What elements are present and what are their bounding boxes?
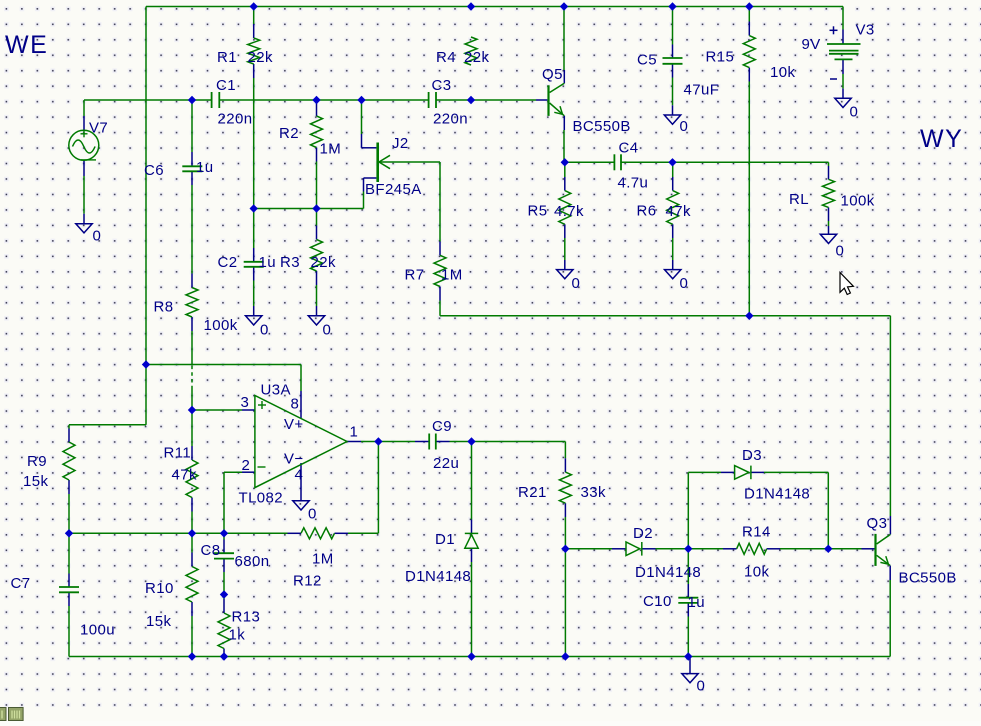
svg-text:D1N4148: D1N4148 [635,564,701,581]
svg-text:22k: 22k [464,49,489,66]
svg-text:4.7u: 4.7u [618,175,649,192]
wire opamp output net [347,441,429,443]
wire R3 column [316,209,318,316]
wire opamp supply feed [146,365,301,419]
svg-text:47k: 47k [666,203,691,220]
svg-text:R2: R2 [279,125,299,142]
svg-text:D1N4148: D1N4148 [744,486,810,503]
svg-text:47k: 47k [172,467,197,484]
svg-text:C2: C2 [218,254,238,271]
svg-text:V−: V− [284,451,304,468]
taskbar icon partial [0,708,6,721]
svg-text:220n: 220n [218,111,253,128]
resistor R10 [186,567,198,603]
wire input net segment V7 to C1 [84,99,212,101]
wire opamp pin 2 net [224,472,255,533]
svg-text:0: 0 [260,322,269,339]
capacitor C9 [428,434,430,450]
svg-text:D1: D1 [435,531,455,548]
ground symbol opamp [293,501,309,510]
wire D1 column [471,442,473,657]
wire C5 column [672,7,674,116]
junction node R4 [467,96,475,104]
wire to Q3 base [828,548,875,550]
svg-text:WY: WY [920,125,963,153]
wire C4 net [565,162,829,179]
resistor R5 [559,191,571,225]
junction opamp output [374,437,382,445]
transistor Q3 [874,534,890,566]
junction R9 C7 node [65,529,73,537]
svg-text:0: 0 [850,104,859,121]
svg-text:9V: 9V [802,36,821,53]
wire R21 node to ground rail [564,549,566,657]
junction D1 node [467,437,475,445]
svg-text:3: 3 [241,394,250,411]
voltage source V7 [69,130,99,160]
diode D3 [735,466,751,480]
wire to R9 branch [69,365,146,443]
wire J2 drain connection [362,100,377,148]
wire bottom ground rail [69,656,890,658]
taskbar icon [9,708,24,721]
svg-text:15k: 15k [146,613,171,630]
svg-text:R8: R8 [154,299,174,316]
junction ground rail R10 [188,652,196,660]
wire C6 R8 column [191,100,193,410]
ground symbol R3 [308,316,324,325]
svg-text:100k: 100k [204,317,238,334]
svg-text:1u: 1u [688,594,706,611]
svg-text:D1N4148: D1N4148 [405,568,471,585]
wire R14 left [688,548,736,550]
wire left vertical from top rail [145,7,147,365]
svg-text:R9: R9 [27,453,47,470]
wire C7 column [68,533,70,656]
wire feedback bottom net [69,532,224,534]
wire D3 branch [688,472,734,548]
wire R1 column [253,7,255,209]
wire R10 column [191,533,193,656]
svg-text:V+: V+ [284,416,304,433]
svg-text:0: 0 [308,506,317,523]
ground symbol R5 [557,270,573,279]
svg-text:C6: C6 [144,162,164,179]
junction R10 node [188,529,196,537]
svg-text:220n: 220n [433,111,468,128]
ground symbol V3 [835,98,851,107]
capacitor C7 [59,586,79,588]
junction ground rail C10 [684,652,692,660]
svg-text:R12: R12 [293,573,322,590]
svg-text:D3: D3 [742,447,762,464]
svg-text:1k: 1k [229,627,246,644]
ground symbol RL [820,234,836,243]
wire C8 stub [223,533,225,594]
svg-text:U3A: U3A [261,382,291,399]
resistor R9 [63,442,75,480]
resistor R21 [559,472,571,503]
wire J2 source rail [254,208,364,210]
svg-text:R13: R13 [232,609,261,626]
resistor R6 [667,191,679,225]
svg-text:R11: R11 [164,445,192,462]
wire ground stub bottom [689,657,691,674]
svg-text:680n: 680n [235,553,270,570]
ground symbol bottom rail [682,674,698,683]
wire D2 to C10 node [642,548,689,550]
diode D1 [465,533,478,548]
junction C4 R6 node [668,158,676,166]
svg-text:0: 0 [323,322,332,339]
svg-text:10k: 10k [770,64,795,81]
wire R21 bottom [564,503,566,549]
junction ground rail R13 [220,652,228,660]
wire Q5 collector column [563,7,565,84]
svg-text:1u: 1u [196,159,214,176]
wire R14 right [767,548,829,550]
ground symbol R6 [665,270,681,279]
wire top supply rail [146,6,843,8]
diode D2 [626,542,642,556]
wire V7 top stub [83,100,85,130]
capacitor C8 [214,552,234,554]
wire R2 column [316,100,318,209]
transistor J2 [376,143,390,183]
svg-text:C5: C5 [637,52,657,69]
svg-text:C1: C1 [216,77,236,94]
capacitor C4 [613,154,615,170]
op-amp U3A [255,396,347,488]
svg-text:BC550B: BC550B [573,118,631,135]
svg-text:R15: R15 [706,49,735,66]
svg-text:TL082: TL082 [239,490,284,507]
resistor R12 [301,528,335,539]
resistor R4 [465,37,477,65]
wire dashed segment below node crossing [191,366,193,389]
junction D2 C10 node [684,545,692,553]
svg-text:8: 8 [291,396,300,413]
wire J2 source connection [364,178,377,209]
svg-text:Q3: Q3 [867,515,888,532]
svg-text:33k: 33k [581,484,606,501]
junction source rail left [250,204,258,212]
svg-text:Q5: Q5 [542,66,563,83]
svg-text:D2: D2 [633,525,653,542]
svg-text:R6: R6 [637,203,657,220]
svg-text:V3: V3 [856,22,875,39]
ground symbol C2 [246,316,262,325]
junction top rail R4 [467,2,475,10]
capacitor C10 [678,597,698,599]
svg-text:R3: R3 [280,254,300,271]
resistor R7 [434,255,446,286]
svg-text:1M: 1M [320,141,342,158]
wire R11 column [191,410,193,533]
capacitor C1 [211,92,213,108]
junction D3 R14 node [824,545,832,553]
svg-text:C10: C10 [643,593,672,610]
svg-text:100u: 100u [80,622,115,639]
resistor RL [823,179,835,207]
junction ground rail R21 [561,652,569,660]
svg-text:R5: R5 [528,203,548,220]
junction C8 R13 node [220,590,228,598]
wire R12 right segment [335,532,379,534]
wire R12 feedback drop [377,442,379,534]
junction source rail R3 [312,204,320,212]
svg-text:R14: R14 [742,524,771,541]
ground symbol V7 [76,224,92,233]
transistor Q5 [547,83,564,116]
junction middle rail R15 [745,312,753,320]
wire Q5 base stub [536,99,547,101]
resistor R1 [248,38,260,64]
svg-text:15k: 15k [23,473,48,490]
capacitor C3 [428,92,430,108]
wire J2 gate to R7 [379,162,440,316]
junction top rail R1 [250,2,258,10]
resistor R2 [311,116,323,148]
svg-text:C3: C3 [432,77,452,94]
wire Q5 emitter column [563,116,565,163]
wire C3 to Q5 base [436,99,536,101]
junction top rail C5 [668,2,676,10]
wire R5 column [564,162,566,269]
svg-text:1u: 1u [259,254,277,271]
resistor R3 [311,240,323,272]
svg-text:R21: R21 [518,484,547,501]
junction left net [142,360,150,368]
svg-text:0: 0 [836,243,845,260]
junction top rail R15 [745,2,753,10]
svg-text:C4: C4 [619,140,639,157]
svg-text:R10: R10 [145,580,174,597]
junction top rail Q5 collector [560,2,568,10]
svg-text:C8: C8 [201,542,221,559]
wire RL to ground [828,207,830,234]
junction node J2 drain [357,96,365,104]
svg-text:J2: J2 [392,135,409,152]
wire Q3 collector column [889,316,891,535]
svg-text:4: 4 [295,467,304,484]
wire C1 to C3 segment [219,99,428,101]
wire C9 to R21 corner [436,442,566,473]
mouse cursor [840,273,853,295]
svg-text:RL: RL [789,191,809,208]
svg-text:22k: 22k [248,49,273,66]
svg-text:4.7k: 4.7k [554,203,584,220]
wire R15 column [748,7,750,316]
junction R8 pin3 node [188,406,196,414]
junction ground rail D1 [467,652,475,660]
svg-text:0: 0 [572,275,581,292]
capacitor C6 [182,165,202,167]
svg-text:BC550B: BC550B [899,570,957,587]
wire R13 column [223,595,225,657]
resistor R14 [737,543,767,554]
svg-text:47uF: 47uF [684,82,720,99]
svg-text:0: 0 [93,228,102,245]
resistor R11 [186,460,198,498]
svg-text:22k: 22k [311,254,336,271]
capacitor C2 [244,261,264,263]
wire C10 column [687,549,689,657]
wire V7 bottom to ground [83,160,85,223]
svg-text:R7: R7 [405,267,425,284]
resistor R8 [186,288,198,318]
junction C8 pin2 node [220,529,228,537]
svg-text:1: 1 [350,424,359,441]
svg-text:C9: C9 [432,418,452,435]
wire opamp pin 4 to ground [300,463,302,501]
wire Q3 emitter column [889,566,891,657]
svg-text:C7: C7 [11,575,31,592]
svg-text:1M: 1M [312,551,334,568]
resistor R13 [218,613,230,649]
wire C2 column [253,209,255,316]
battery V3 [827,26,861,79]
svg-text:R1: R1 [217,49,237,66]
svg-text:V7: V7 [89,120,108,137]
ground symbol C5 [664,115,680,124]
wire R21 to D2 [565,548,626,550]
wire R6 column [672,162,674,269]
svg-text:10k: 10k [744,564,769,581]
wire to opamp pin 3 [192,409,255,411]
svg-text:100k: 100k [841,193,875,210]
resistor R15 [743,36,755,68]
junction Q5 emitter node [561,158,569,166]
capacitor C5 [663,57,683,59]
svg-text:WE: WE [5,31,48,59]
wire D3 to corner [751,472,828,548]
junction node R2 [312,96,320,104]
wire V3 column [842,7,844,99]
svg-text:0: 0 [697,678,706,695]
junction node C1 C6 [188,96,196,104]
wire middle rail [440,315,890,317]
svg-text:2: 2 [242,457,251,474]
junction R21 D2 node [561,545,569,553]
svg-text:0: 0 [680,118,689,135]
svg-text:0: 0 [680,275,689,292]
svg-text:R4: R4 [436,49,456,66]
svg-text:22u: 22u [433,455,459,472]
wire R9 bottom [68,480,70,533]
svg-text:BF245A: BF245A [365,181,422,198]
svg-text:1M: 1M [441,267,463,284]
wire R12 left segment [224,532,301,534]
